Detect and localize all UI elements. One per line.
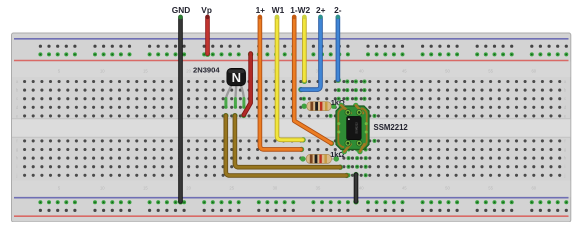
- svg-text:15: 15: [143, 69, 148, 74]
- svg-text:W1: W1: [272, 5, 285, 15]
- svg-text:50: 50: [445, 69, 450, 74]
- svg-text:j: j: [16, 173, 18, 178]
- node 1-W2 yellow end: [302, 79, 307, 84]
- svg-text:c: c: [16, 96, 18, 101]
- svg-text:30: 30: [273, 186, 278, 191]
- svg-text:20: 20: [186, 186, 191, 191]
- node red jumper rail end: [248, 52, 253, 57]
- node brown B start: [232, 113, 237, 118]
- svg-text:Vp: Vp: [201, 5, 212, 15]
- svg-text:j: j: [564, 173, 566, 178]
- svg-text:35: 35: [316, 186, 321, 191]
- wire 1-W2 (yellow): [302, 17, 307, 81]
- node W1 end: [300, 137, 305, 142]
- svg-text:1+: 1+: [256, 5, 266, 15]
- wire 1-W2 orange top cap: [292, 15, 296, 19]
- pin labels: [172, 5, 342, 15]
- node GND bottom rail: [178, 199, 183, 204]
- wire brown jumper B: [235, 116, 340, 168]
- svg-text:SSM2212: SSM2212: [355, 122, 359, 134]
- wire GND top cap: [178, 15, 183, 20]
- wire 1+ top cap: [258, 15, 262, 19]
- svg-text:55: 55: [488, 186, 493, 191]
- node black jumper top: [353, 172, 358, 177]
- svg-text:55: 55: [488, 69, 493, 74]
- wire W1 (yellow): [277, 17, 303, 140]
- svg-text:60: 60: [531, 69, 536, 74]
- transistor Q1 2N3904: [224, 68, 245, 109]
- svg-text:N: N: [232, 70, 241, 85]
- resistor R2 1k: [300, 154, 339, 163]
- wire 2+ (blue): [301, 17, 320, 90]
- breadboard body: [12, 33, 571, 222]
- node 1-W2 orange end: [329, 141, 334, 146]
- svg-text:40: 40: [359, 186, 364, 191]
- svg-text:i: i: [565, 164, 566, 169]
- node red jumper row e end: [241, 113, 246, 118]
- node brown B end: [338, 165, 343, 170]
- svg-text:2N3904: 2N3904: [193, 66, 220, 75]
- node 1+ end: [299, 147, 304, 152]
- svg-text:45: 45: [402, 69, 407, 74]
- connected nodes (green holes): [302, 80, 377, 178]
- node Vp rail: [205, 52, 210, 57]
- wire 1+ (orange): [260, 17, 301, 149]
- node brown A start: [223, 113, 228, 118]
- node black jumper rail: [353, 199, 358, 204]
- svg-text:50: 50: [445, 186, 450, 191]
- svg-text:45: 45: [402, 186, 407, 191]
- wire 1-W2 (orange): [294, 17, 331, 143]
- wire GND (black): [178, 17, 183, 202]
- IC U1 SSM2212 adapter board: [336, 103, 369, 155]
- node 2+ end: [298, 87, 303, 92]
- node brown A end: [344, 173, 349, 178]
- svg-text:c: c: [564, 96, 566, 101]
- svg-text:2-: 2-: [334, 5, 342, 15]
- svg-text:SSM2212: SSM2212: [374, 123, 409, 132]
- svg-text:2+: 2+: [316, 5, 326, 15]
- svg-text:1-W2: 1-W2: [290, 5, 310, 15]
- wire Vp (red): [205, 17, 210, 54]
- svg-text:i: i: [17, 164, 18, 169]
- wire brown jumper A: [226, 116, 347, 176]
- wire 2- (blue): [336, 17, 341, 80]
- wire 2+ top cap: [318, 15, 322, 19]
- wire Vp top cap: [205, 15, 209, 19]
- svg-text:10: 10: [100, 69, 105, 74]
- wire 2- top cap: [336, 15, 340, 19]
- wire GND jumper (black): [354, 175, 359, 202]
- svg-text:15: 15: [143, 186, 148, 191]
- wire 1-W2 yellow top cap: [302, 15, 306, 19]
- resistor R1 1k: [302, 102, 337, 111]
- node 2- end: [336, 78, 341, 83]
- svg-text:25: 25: [229, 186, 234, 191]
- svg-text:10: 10: [100, 186, 105, 191]
- wire W1 top cap: [275, 15, 279, 19]
- svg-text:20: 20: [186, 69, 191, 74]
- svg-text:60: 60: [531, 186, 536, 191]
- wire red jumper: [244, 54, 251, 116]
- svg-text:GND: GND: [172, 5, 190, 15]
- svg-text:40: 40: [359, 69, 364, 74]
